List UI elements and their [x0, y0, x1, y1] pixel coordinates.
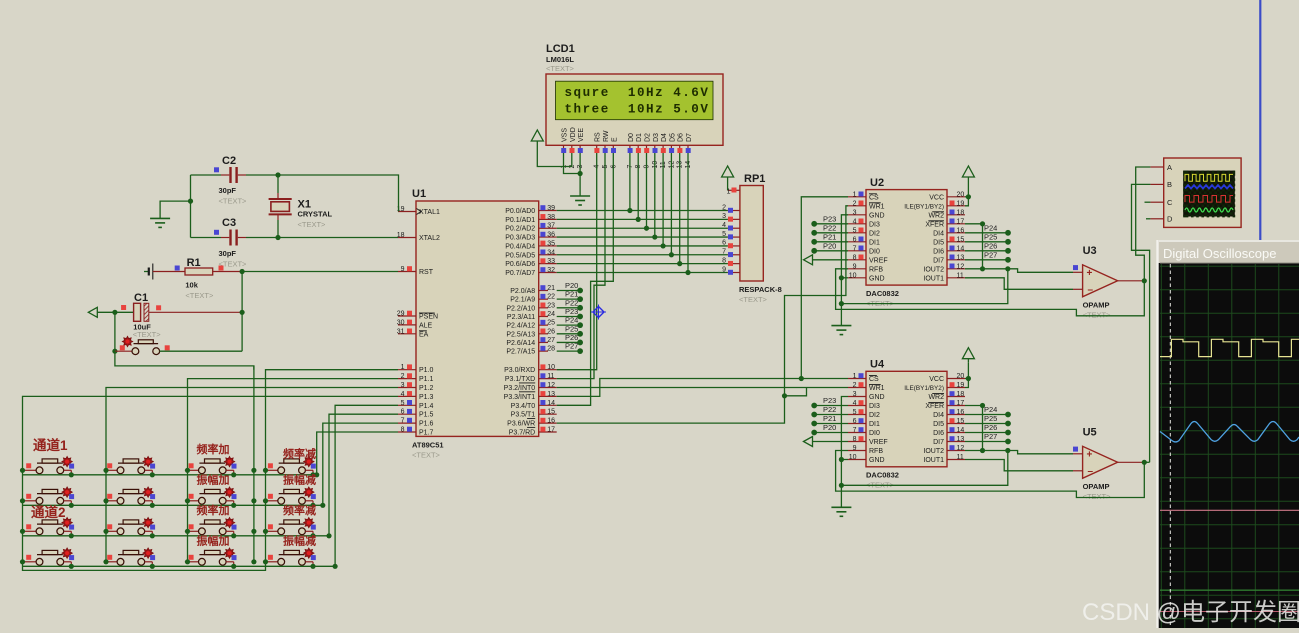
svg-text:振幅减: 振幅减 [283, 472, 316, 486]
svg-text:29: 29 [397, 311, 405, 318]
crystal X1 [269, 193, 333, 229]
svg-text:20: 20 [957, 191, 965, 198]
net stubs P23-P20 into U4 DI3-DI0 [811, 396, 848, 435]
net stubs P24-P27 on U4 DI4-DI7 [965, 405, 1011, 444]
labels 频率加/频率减/振幅加/振幅减 [197, 442, 317, 548]
svg-text:D6: D6 [678, 133, 685, 142]
svg-text:P0.5/AD5: P0.5/AD5 [505, 252, 535, 259]
svg-text:<TEXT>: <TEXT> [546, 64, 575, 73]
svg-text:通道1: 通道1 [33, 437, 68, 453]
svg-text:19: 19 [957, 382, 965, 389]
wire U4 IOUT2 to U5 + input [965, 451, 1073, 454]
svg-text:P20: P20 [823, 241, 836, 250]
U1 right pins: P0.0/AD0-P0.7/AD7(39-32) P2.0/A8-P2.7/A15(21-28) P3.0/RXD-P3.7/RD(10-17) [504, 205, 557, 437]
input terminal [804, 255, 813, 265]
svg-text:P22: P22 [565, 298, 578, 307]
svg-text:4: 4 [853, 218, 857, 225]
svg-text:10k: 10k [185, 281, 198, 290]
svg-text:22: 22 [547, 294, 555, 301]
node U5 output [1142, 460, 1147, 465]
svg-text:振幅加: 振幅加 [197, 472, 230, 486]
svg-text:2: 2 [853, 382, 857, 389]
svg-text:P25: P25 [565, 324, 578, 333]
oscilloscope yellow square trace [1160, 339, 1299, 356]
node oscillator ground tap [188, 199, 193, 204]
svg-text:9: 9 [401, 266, 405, 273]
svg-text:P3.5/T1: P3.5/T1 [511, 412, 536, 419]
wire keypad bottom rail [23, 562, 266, 571]
svg-text:13: 13 [957, 436, 965, 443]
svg-text:Digital Oscilloscope: Digital Oscilloscope [1163, 246, 1276, 261]
svg-text:P1.0: P1.0 [419, 367, 434, 374]
wire bus P0.0-P0.7 from U1 to RP1 [557, 211, 728, 273]
svg-text:RESPACK-8: RESPACK-8 [739, 285, 782, 294]
svg-text:CSDN @电子开发圈: CSDN @电子开发圈 [1082, 599, 1299, 626]
svg-text:13: 13 [957, 254, 965, 261]
U2 left pins 1-10 [848, 191, 888, 282]
DAC U2 DAC0832 [866, 177, 947, 308]
wires LCD D0-D7 down to P0 bus with junctions [627, 153, 690, 275]
battery cell terminal left of R1 [144, 264, 153, 280]
svg-text:DI1: DI1 [869, 421, 880, 428]
wire U4 GND pin10 [841, 459, 848, 461]
svg-text:DI5: DI5 [933, 239, 944, 246]
svg-text:P26: P26 [984, 423, 997, 432]
svg-text:+: + [1087, 268, 1093, 279]
oscilloscope screen grid [1160, 264, 1299, 628]
svg-text:P22: P22 [823, 223, 836, 232]
DAC U4 DAC0832 [866, 359, 947, 490]
svg-text:D3: D3 [653, 133, 660, 142]
wire U3 feedback to U2 RFB [836, 269, 1145, 316]
oscilloscope component mini screen [1183, 171, 1235, 218]
svg-text:VCC: VCC [929, 194, 944, 201]
svg-text:1: 1 [853, 191, 857, 198]
wire RP1 pin1 to power terminal [727, 181, 729, 190]
svg-text:振幅加: 振幅加 [197, 533, 230, 547]
svg-text:VREF: VREF [869, 257, 888, 264]
wire left vertical joining C2/C3 [191, 174, 222, 176]
svg-text:P3.7/RD: P3.7/RD [509, 430, 535, 437]
ground left of oscillator [150, 218, 170, 227]
svg-text:DI4: DI4 [933, 230, 944, 237]
svg-text:P23: P23 [565, 307, 578, 316]
svg-text:DI3: DI3 [869, 221, 880, 228]
svg-text:WR1: WR1 [869, 203, 885, 210]
svg-text:P21: P21 [823, 232, 836, 241]
svg-text:CS: CS [869, 194, 879, 201]
push button S6 [104, 487, 156, 508]
ground below LCD [570, 196, 590, 205]
svg-text:IOUT1: IOUT1 [923, 457, 944, 464]
svg-text:30: 30 [397, 319, 405, 326]
svg-text:P1.2: P1.2 [419, 385, 434, 392]
wire U5 output to scope channel B [1144, 461, 1149, 463]
svg-text:U5: U5 [1083, 426, 1097, 438]
oscilloscope component box [1150, 158, 1241, 227]
svg-text:8: 8 [401, 427, 405, 434]
svg-text:P22: P22 [823, 405, 836, 414]
svg-text:30pF: 30pF [219, 249, 237, 258]
svg-text:EA: EA [419, 331, 429, 338]
oscilloscope lower pink line [1160, 611, 1299, 613]
svg-text:P3.0/RXD: P3.0/RXD [504, 367, 535, 374]
svg-text:D0: D0 [628, 133, 635, 142]
svg-text:RST: RST [419, 269, 434, 276]
svg-text:通道2: 通道2 [31, 504, 66, 520]
svg-text:IOUT1: IOUT1 [923, 275, 944, 282]
svg-text:ILE(BY1/BY2): ILE(BY1/BY2) [904, 203, 944, 210]
svg-text:DI5: DI5 [933, 421, 944, 428]
svg-text:33: 33 [547, 258, 555, 265]
svg-text:10: 10 [849, 454, 857, 461]
svg-text:P2.4/A12: P2.4/A12 [506, 323, 535, 330]
svg-text:<TEXT>: <TEXT> [185, 291, 214, 300]
svg-text:VDD: VDD [570, 127, 577, 142]
svg-text:–: – [1088, 466, 1094, 477]
svg-text:16: 16 [547, 418, 555, 425]
svg-text:8: 8 [853, 436, 857, 443]
svg-text:D7: D7 [686, 133, 693, 142]
svg-text:2: 2 [853, 200, 857, 207]
svg-text:D4: D4 [661, 133, 668, 142]
wire U2 GND pin3 [841, 215, 848, 326]
ground below U4 [831, 507, 851, 516]
svg-text:DAC0832: DAC0832 [866, 289, 899, 298]
RP1 pins 2-9 stubs with numbers and squares [722, 204, 740, 274]
origin marker [591, 305, 606, 320]
node RST branch [240, 269, 245, 274]
svg-text:12: 12 [957, 263, 965, 270]
svg-text:OPAMP: OPAMP [1083, 300, 1110, 309]
wire U2 GND pin10 [841, 277, 848, 279]
node C1 right junction [240, 310, 245, 315]
net stubs P20-P27 on U1 port 2 [557, 281, 583, 354]
svg-text:CS: CS [869, 376, 879, 383]
svg-text:P3.2/INT0: P3.2/INT0 [504, 385, 536, 392]
svg-text:P1.3: P1.3 [419, 394, 434, 401]
svg-text:25: 25 [547, 320, 555, 327]
oscilloscope trigger cursor dashed line [1169, 264, 1171, 628]
svg-text:RW: RW [603, 130, 610, 142]
wire reset button right up to RST net [241, 312, 243, 351]
node reset button left [112, 349, 117, 354]
svg-text:XFER: XFER [925, 403, 944, 410]
svg-text:U1: U1 [412, 188, 426, 200]
input terminal [804, 437, 813, 447]
push button 振幅加2 key [185, 548, 237, 569]
svg-text:P21: P21 [565, 290, 578, 299]
svg-text:10: 10 [547, 364, 555, 371]
svg-text:7: 7 [401, 418, 405, 425]
svg-text:VREF: VREF [869, 439, 888, 446]
resistor pack RP1 RESPACK-8 [739, 173, 782, 304]
wire scope channel C stub [1145, 201, 1151, 203]
svg-text:DI2: DI2 [869, 230, 880, 237]
svg-text:P20: P20 [565, 281, 578, 290]
svg-text:LCD1: LCD1 [546, 43, 575, 55]
svg-text:P1.6: P1.6 [419, 421, 434, 428]
svg-text:6: 6 [853, 418, 857, 425]
resistor R1 10k [153, 257, 242, 300]
svg-text:P1.7: P1.7 [419, 430, 434, 437]
wire terminal to C1 node [97, 311, 115, 313]
svg-text:P23: P23 [823, 214, 836, 223]
svg-text:P1.1: P1.1 [419, 376, 434, 383]
svg-text:RFB: RFB [869, 448, 883, 455]
wire U2 IOUT1 to U3 - input [965, 278, 1073, 290]
svg-text:P24: P24 [984, 223, 997, 232]
svg-text:37: 37 [547, 223, 555, 230]
svg-text:D: D [1167, 215, 1173, 224]
wire U2 IOUT2 ground link [841, 269, 1007, 304]
push button S2 [104, 456, 156, 477]
svg-text:1: 1 [853, 373, 857, 380]
svg-text:DI6: DI6 [933, 430, 944, 437]
svg-text:3: 3 [853, 391, 857, 398]
svg-text:ILE(BY1/BY2): ILE(BY1/BY2) [904, 385, 944, 392]
svg-text:P2.6/A14: P2.6/A14 [506, 340, 535, 347]
svg-text:WR2: WR2 [928, 212, 944, 219]
ground below U2 [831, 326, 851, 335]
svg-text:4: 4 [401, 391, 405, 398]
node C1 left junction [112, 310, 117, 315]
wire U3 output to scope channel A [1136, 167, 1151, 281]
svg-text:RP1: RP1 [744, 173, 765, 185]
svg-text:P27: P27 [984, 432, 997, 441]
U4 right pins 20-11 [904, 373, 965, 464]
svg-text:<TEXT>: <TEXT> [133, 330, 162, 339]
wire U4 XFER tie [965, 406, 983, 451]
capacitor C3 30pF [214, 217, 247, 269]
push button 振幅加 key [185, 487, 237, 508]
svg-text:A: A [1167, 163, 1172, 172]
svg-text:P26: P26 [565, 333, 578, 342]
svg-text:24: 24 [547, 311, 555, 318]
svg-text:16: 16 [957, 227, 965, 234]
svg-text:C: C [1167, 198, 1173, 207]
push button 频率减 key [264, 456, 316, 477]
capacitor C1 10uF polarized [115, 292, 242, 339]
editor window blue border line [1259, 0, 1261, 241]
wire CS net: U1 P3.3 to U2 pin1 and U4 pin1 [557, 379, 848, 397]
input terminal [88, 307, 97, 317]
node CS junction [799, 376, 804, 381]
wire WR net: U1 P3.6 branch [557, 396, 785, 423]
svg-text:C3: C3 [222, 217, 236, 229]
svg-text:频率加: 频率加 [197, 503, 230, 517]
svg-text:U4: U4 [870, 359, 885, 371]
svg-text:DI2: DI2 [869, 412, 880, 419]
wire keypad row rails [23, 475, 336, 567]
svg-text:WR2: WR2 [928, 394, 944, 401]
svg-text:4: 4 [853, 400, 857, 407]
push button S1 [23, 456, 75, 477]
svg-text:P27: P27 [565, 342, 578, 351]
svg-text:P3.6/WR: P3.6/WR [507, 421, 535, 428]
svg-text:21: 21 [547, 285, 555, 292]
svg-text:18: 18 [957, 391, 965, 398]
svg-text:ALE: ALE [419, 322, 433, 329]
wire RST node down to C1 row [241, 272, 243, 313]
svg-text:38: 38 [547, 214, 555, 221]
svg-text:CRYSTAL: CRYSTAL [298, 210, 333, 219]
svg-text:12: 12 [547, 382, 555, 389]
svg-text:OPAMP: OPAMP [1083, 482, 1110, 491]
push button 振幅减2 key [264, 548, 316, 569]
wire R1 to U1 RST [242, 271, 398, 273]
svg-text:XFER: XFER [925, 221, 944, 228]
svg-text:C2: C2 [222, 155, 236, 167]
wire WR net: U1 P3.2 to U4 pin2 [557, 387, 848, 389]
svg-text:15: 15 [957, 236, 965, 243]
svg-text:D2: D2 [645, 133, 652, 142]
U4 left pins 1-10 [848, 373, 888, 464]
svg-text:R1: R1 [187, 257, 201, 269]
wire LCD VDD to power terminal [537, 145, 572, 167]
wire scope channel D stub [1146, 218, 1150, 220]
svg-text:P0.1/AD1: P0.1/AD1 [505, 217, 535, 224]
power terminal [962, 348, 974, 363]
svg-text:P2.5/A13: P2.5/A13 [506, 331, 535, 338]
svg-text:19: 19 [957, 200, 965, 207]
svg-text:<TEXT>: <TEXT> [1083, 492, 1112, 501]
svg-text:P20: P20 [823, 423, 836, 432]
wire LCD RS down to U1 P3.0/RXD [557, 153, 597, 370]
wire reset net down to keypad area [115, 351, 254, 370]
svg-text:P26: P26 [984, 241, 997, 250]
wire LCD VEE down to ground node [579, 153, 581, 174]
svg-text:14: 14 [957, 245, 965, 252]
wire C3 to XTAL2 [246, 237, 398, 239]
svg-text:13: 13 [547, 391, 555, 398]
Digital Oscilloscope window [1158, 240, 1299, 628]
svg-text:30pF: 30pF [219, 186, 237, 195]
op-amp U3 OPAMP [1073, 245, 1144, 319]
LCD display LCD1 LM016L [546, 43, 723, 145]
power terminal above RP1 [722, 166, 734, 181]
svg-text:D5: D5 [669, 133, 676, 142]
svg-text:频率减: 频率减 [283, 503, 316, 517]
svg-text:P3.1/TXD: P3.1/TXD [505, 376, 535, 383]
wire to ground [160, 201, 190, 218]
node U3 output [1142, 278, 1147, 283]
svg-text:36: 36 [547, 232, 555, 239]
svg-text:3: 3 [401, 382, 405, 389]
node WR junction [782, 393, 787, 398]
svg-text:D1: D1 [636, 133, 643, 142]
push button 频率减2 key [264, 517, 316, 538]
wire U4 IOUT1 to U5 - input [965, 460, 1073, 471]
svg-text:P23: P23 [823, 396, 836, 405]
svg-text:P21: P21 [823, 414, 836, 423]
svg-text:P0.7/AD7: P0.7/AD7 [505, 270, 535, 277]
wire risers U1 P1.4-P1.7 to keypad rails [314, 405, 398, 569]
svg-text:27: 27 [547, 337, 555, 344]
op-amp U5 OPAMP [1073, 426, 1144, 501]
svg-text:3: 3 [853, 209, 857, 216]
wire U2 IOUT2 to U3 + input [965, 269, 1073, 273]
svg-text:DI0: DI0 [869, 248, 880, 255]
svg-text:WR1: WR1 [869, 385, 885, 392]
svg-text:DI1: DI1 [869, 239, 880, 246]
oscilloscope blue triangle trace [1160, 422, 1299, 442]
svg-text:RS: RS [595, 132, 602, 142]
svg-text:5: 5 [853, 409, 857, 416]
svg-text:15: 15 [957, 418, 965, 425]
RP1 pin 1 stub with number and square [727, 188, 740, 196]
svg-text:P2.0/A8: P2.0/A8 [510, 288, 535, 295]
wire U4 GND pin3 [841, 397, 848, 508]
wire LCD RW down to U1 P3.1/TXD [557, 153, 605, 379]
svg-text:P1.4: P1.4 [419, 403, 434, 410]
power terminal [962, 166, 974, 181]
svg-text:20: 20 [957, 373, 965, 380]
net stubs P24-P27 on U2 DI4-DI7 [965, 223, 1011, 262]
power terminal left of LCD [531, 130, 543, 145]
svg-text:PSEN: PSEN [419, 314, 438, 321]
svg-text:17: 17 [957, 218, 965, 225]
svg-text:–: – [1088, 285, 1094, 296]
svg-text:31: 31 [397, 328, 405, 335]
push button reset [115, 336, 242, 354]
wire LCD E down to U1 P3.4/T0 [557, 153, 614, 405]
svg-text:U2: U2 [870, 177, 884, 189]
svg-text:P2.7/A15: P2.7/A15 [506, 349, 535, 356]
wire U5 feedback to U4 RFB [836, 451, 1145, 498]
svg-text:GND: GND [869, 275, 885, 282]
svg-text:P24: P24 [565, 316, 578, 325]
svg-text:P25: P25 [984, 414, 997, 423]
svg-text:<TEXT>: <TEXT> [739, 295, 768, 304]
svg-text:P2.2/A10: P2.2/A10 [506, 305, 535, 312]
svg-text:11: 11 [957, 272, 964, 279]
svg-text:IOUT2: IOUT2 [923, 448, 944, 455]
wire U4 IOUT2 ground link [841, 451, 1007, 486]
svg-text:C1: C1 [134, 292, 148, 304]
svg-text:<TEXT>: <TEXT> [298, 220, 327, 229]
svg-text:7: 7 [853, 245, 857, 252]
svg-text:GND: GND [869, 394, 885, 401]
svg-text:频率加: 频率加 [197, 442, 230, 456]
svg-text:DI6: DI6 [933, 248, 944, 255]
node VSS/VEE junction [578, 171, 583, 176]
svg-text:15: 15 [547, 409, 555, 416]
svg-text:DI4: DI4 [933, 412, 944, 419]
svg-text:P2.3/A11: P2.3/A11 [507, 314, 535, 321]
svg-text:14: 14 [957, 427, 965, 434]
wire LCD VSS down and right to VEE node [564, 153, 581, 174]
svg-text:8: 8 [853, 254, 857, 261]
push button S9 [23, 517, 75, 538]
svg-text:U3: U3 [1083, 245, 1097, 257]
svg-text:IOUT2: IOUT2 [923, 266, 944, 273]
svg-text:DI3: DI3 [869, 403, 880, 410]
svg-text:P0.3/AD3: P0.3/AD3 [505, 235, 535, 242]
wire X1 bottom to C3 net [277, 220, 279, 238]
svg-text:23: 23 [547, 302, 555, 309]
wire U2 VCC and ILE [965, 181, 968, 206]
svg-text:VEE: VEE [578, 128, 585, 142]
svg-text:DAC0832: DAC0832 [866, 471, 899, 480]
svg-text:LM016L: LM016L [546, 55, 574, 64]
svg-text:E: E [611, 137, 618, 142]
svg-text:32: 32 [547, 267, 555, 274]
svg-text:<TEXT>: <TEXT> [219, 197, 248, 206]
svg-text:<TEXT>: <TEXT> [412, 451, 441, 460]
capacitor C2 30pF [214, 155, 247, 206]
oscilloscope pink reference line [1160, 509, 1299, 511]
